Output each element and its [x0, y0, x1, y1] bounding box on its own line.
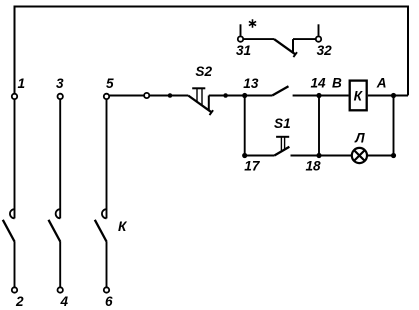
wire: lamp to node A vertical [367, 155, 394, 157]
node 31 terminal circle [238, 36, 243, 41]
asterisk mark [249, 19, 256, 27]
wire: S1 left lead [245, 155, 275, 157]
wire: contact 13-14 left lead [245, 95, 273, 97]
lamp Л circle [352, 148, 367, 163]
wire: vertical from node A down to lamp row [393, 96, 395, 156]
node 18 junction dot [316, 153, 321, 158]
junction dot on main row [168, 93, 173, 98]
wire: lower lead of switch 1-2 [14, 241, 16, 287]
wire: vertical from node 14 down to node 18 [318, 96, 320, 156]
wire: main row from S2 to node 13 [209, 95, 245, 97]
svg-text:5: 5 [106, 76, 114, 91]
svg-text:4: 4 [60, 294, 69, 309]
connector terminal circle on main row [144, 93, 149, 98]
svg-text:13: 13 [243, 76, 259, 91]
wire: node 14 to relay coil K [319, 95, 349, 97]
svg-text:17: 17 [244, 158, 261, 173]
node 32 terminal circle [316, 36, 321, 41]
relay contact 13-14 blade (make contact, open) [272, 86, 288, 95]
node 4 terminal circle [58, 287, 63, 292]
wire: upper lead of switch 5-6 [106, 100, 108, 219]
svg-text:1: 1 [18, 76, 26, 91]
contact 31-32 blade tip hook [293, 52, 297, 57]
junction dot on main row right of S2 [223, 93, 228, 98]
node 1 terminal circle [12, 94, 17, 99]
contact 31-32 fixed contact vertical [292, 39, 294, 52]
pushbutton S2 blade (break contact) [188, 96, 211, 113]
svg-text:К: К [118, 219, 128, 234]
svg-text:31: 31 [236, 43, 251, 58]
node 17 junction dot [242, 153, 247, 158]
wire: lower lead of switch 5-6 [106, 241, 108, 287]
pushbutton S2 fixed contact vertical [208, 96, 210, 111]
wire: contact 13-14 right lead to node 14 [293, 95, 319, 97]
switch 3-4 fixed jaw arc [56, 209, 61, 218]
wire: node 18 to lamp [319, 155, 352, 157]
svg-text:3: 3 [56, 76, 64, 91]
pushbutton S1 actuator button bar [276, 136, 289, 138]
svg-text:32: 32 [317, 43, 333, 58]
wire: contact 31-32 right lead [293, 38, 316, 40]
node 6 terminal circle [104, 287, 109, 292]
switch 5-6 fixed jaw arc [102, 209, 107, 218]
pushbutton S1 actuator stem [281, 137, 284, 151]
svg-text:14: 14 [311, 76, 327, 91]
wire: contact 31-32 left lead [243, 38, 274, 40]
wire: upper lead of switch 1-2 [14, 100, 16, 219]
svg-text:S2: S2 [195, 64, 212, 79]
wire: main row from node 5 to contact S2 [110, 95, 189, 97]
svg-text:S1: S1 [274, 116, 291, 131]
lamp Л cross [354, 150, 365, 161]
junction dot lamp row right [391, 153, 396, 158]
node A junction dot [391, 93, 396, 98]
switch 1-2 blade [3, 220, 15, 242]
svg-text:В: В [332, 76, 342, 91]
switch 1-2 fixed jaw arc [10, 209, 15, 218]
wire: top bus loop from node 1 up, across the top, down right side to node A [15, 7, 409, 96]
pushbutton S2 actuator button bar [192, 87, 205, 89]
pushbutton S2 blade tip hook [210, 110, 214, 115]
wire: upper lead of switch 3-4 [59, 100, 61, 219]
relay coil K box [350, 81, 367, 111]
svg-text:А: А [376, 76, 387, 91]
svg-text:Л: Л [354, 130, 365, 145]
pushbutton S2 actuator stem [197, 89, 202, 106]
pushbutton S1 blade (make contact, open) [274, 147, 289, 156]
svg-text:2: 2 [15, 294, 24, 309]
wire: stub above terminal 32 [318, 24, 320, 35]
svg-text:18: 18 [306, 158, 322, 173]
node 13 junction dot [242, 93, 247, 98]
wire: stub above terminal 31 [240, 24, 242, 35]
node 2 terminal circle [12, 287, 17, 292]
wire: vertical from node 13 down to node 17 [244, 96, 246, 156]
node 5 terminal circle [104, 94, 109, 99]
contact 31-32 blade (break contact) [274, 39, 295, 54]
node 14 junction dot [316, 93, 321, 98]
switch 3-4 blade [49, 220, 61, 242]
node 3 terminal circle [58, 94, 63, 99]
switch 5-6 blade [95, 220, 107, 242]
svg-text:6: 6 [105, 294, 113, 309]
wire: lower lead of switch 3-4 [59, 241, 61, 287]
wire: relay K to node A junction and right bus corner [368, 95, 408, 97]
wire: S1 right lead to node 18 [291, 155, 320, 157]
